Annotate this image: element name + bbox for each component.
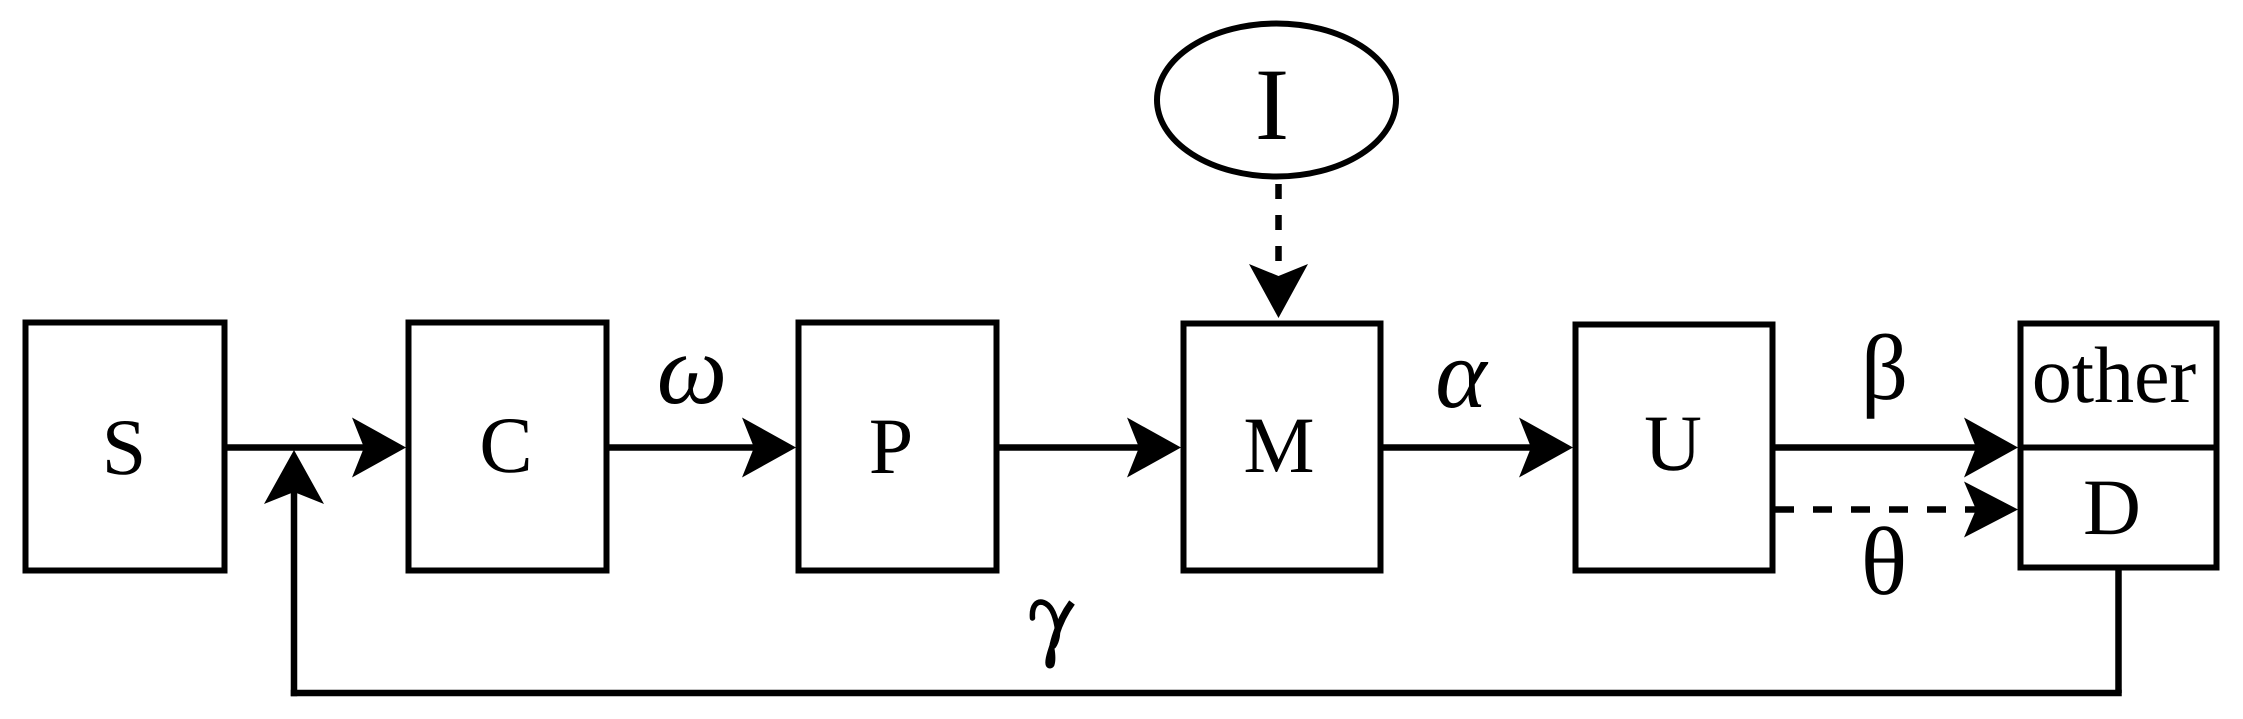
arrowhead of feedback wire at S-C junction (264, 450, 324, 504)
label alpha (1438, 361, 1488, 408)
wire arrow C to P (609, 418, 796, 478)
wire arrow S to C (227, 418, 406, 478)
label beta (1867, 334, 1904, 419)
label theta (1865, 526, 1903, 595)
feedback wire segment from D bottom downward (2115, 570, 2122, 693)
box D (2021, 448, 2217, 568)
box S (26, 323, 225, 571)
wire arrow U to other (beta) (1775, 418, 2018, 478)
wire arrow M to U (1383, 418, 1573, 478)
label omega (660, 356, 723, 404)
ellipse I (1157, 24, 1396, 177)
wire arrow P to M (999, 418, 1181, 478)
box U (1576, 325, 1773, 571)
feedback wire segment rising to S-C junction (291, 490, 298, 696)
box M (1184, 324, 1381, 571)
box other (2021, 324, 2217, 448)
dashed wire I to M (1249, 184, 1308, 318)
box C (409, 323, 607, 571)
box P (799, 323, 997, 571)
dashed wire arrow U to D (theta) (1775, 482, 2018, 538)
label gamma (1032, 602, 1072, 668)
feedback wire bottom horizontal segment (291, 690, 2122, 697)
